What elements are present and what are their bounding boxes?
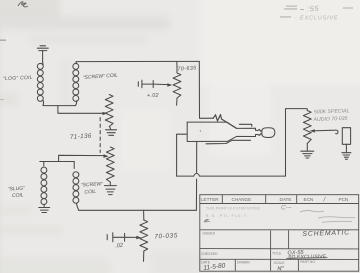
header row [200, 203, 359, 205]
wire: bottom bus [79, 209, 197, 211]
resistor R5 500K audio [303, 111, 311, 144]
plug tip bulb [258, 128, 275, 138]
wire: R5 wiper to hook [312, 130, 339, 134]
svg-text::55: :55 [307, 4, 320, 14]
row5 labels [201, 260, 316, 265]
ground G4 below R2 [104, 182, 116, 195]
left margin marks [0, 40, 6, 41]
gang dashed line 71-136 [99, 118, 101, 153]
arrow into R3 from C1 [167, 83, 172, 87]
arrow into R1 [103, 112, 108, 115]
handwritten labels [3, 65, 198, 249]
ground G6 below J2 [342, 144, 351, 159]
wire: lower horizontal with hop [177, 175, 286, 177]
resistor R2 (lower half of 71-136) [106, 147, 114, 182]
svg-text:ECN: ECN [304, 197, 314, 202]
jack tip contact arm [213, 115, 236, 129]
bottom pickup top wire [40, 161, 74, 163]
wire: stub down to R4 [143, 210, 145, 220]
svg-text:· EXCLUSIVE: · EXCLUSIVE [295, 16, 338, 22]
component J2 rectangle [342, 128, 350, 145]
svg-text:CHECKED: CHECKED [201, 252, 218, 256]
svg-text:THIS PRINT IS FILTER NOTED: THIS PRINT IS FILTER NOTED [206, 207, 261, 211]
svg-text:500K SPECIAL: 500K SPECIAL [314, 108, 350, 115]
pencil squiggles right of row2 [300, 210, 355, 222]
wire: vertical down to jack [199, 61, 213, 118]
arrow into R2 [103, 154, 108, 158]
pencil scribble top-left [18, 2, 28, 7]
wire: jack left lead [177, 134, 187, 176]
title block header text [201, 197, 348, 204]
svg-text:70-035: 70-035 [154, 232, 178, 240]
capacitor C1 +.02 [138, 80, 168, 88]
jack plug J1 body [187, 122, 258, 144]
wire: junction down to pot R1 wiper [58, 106, 104, 114]
svg-text:70-635: 70-635 [177, 65, 197, 72]
wire: top wire from L2 to corner [76, 60, 199, 62]
wire: top pickup bottom bus [43, 105, 76, 107]
wire hop over vertical [194, 173, 200, 176]
resistor R1 (upper half of 71-136) [105, 95, 113, 127]
wire: jack sleeve down to bus [195, 142, 197, 211]
coil L1 "LOG" coil [37, 63, 43, 106]
ground G2 below R1 [106, 127, 117, 136]
svg-text:COIL: COIL [84, 189, 96, 196]
coil L4 "SCREW" coil (bottom) [73, 162, 79, 211]
scribble row2 left [204, 219, 210, 222]
resistor R3 70-635 [173, 67, 181, 106]
wire to R2 wiper from bottom pickup [59, 155, 105, 161]
svg-text:R.N. PTL FLD-T: R.N. PTL FLD-T [206, 214, 246, 218]
svg-text:AUDIO 70-035: AUDIO 70-035 [312, 116, 347, 123]
arrow into R5 wiper [310, 129, 315, 132]
svg-text:SCALE: SCALE [274, 261, 286, 265]
row lines [200, 229, 359, 231]
ground G1 top of log coil [37, 46, 48, 63]
verticals lower [270, 231, 272, 272]
svg-text:ISSUED: ISSUED [203, 232, 216, 236]
title block [200, 195, 359, 272]
svg-text:“SCREW”: “SCREW” [81, 181, 104, 188]
label 500K SPECIAL AUDIO 70-035 (pencil) [312, 108, 349, 123]
ground G3 below slug coil [39, 208, 50, 213]
ground G5 below R5 [301, 144, 314, 159]
svg-text:DATE: DATE [280, 197, 292, 202]
svg-text:COIL: COIL [12, 192, 24, 199]
wire: up right side to R5 [286, 109, 308, 177]
svg-text:TITLE: TITLE [272, 252, 282, 256]
resistor R4 70-035 [140, 220, 148, 261]
svg-text:CHANGE: CHANGE [232, 197, 252, 202]
capacitor C2 .02 [107, 233, 137, 242]
stamp text row2 [206, 207, 261, 219]
arrow into R4 from C2 [136, 236, 141, 240]
svg-text:“LOG” COIL: “LOG” COIL [3, 75, 33, 82]
svg-text:PCN: PCN [339, 197, 349, 202]
svg-text:DRAWN: DRAWN [237, 260, 250, 264]
svg-text:+.02: +.02 [147, 93, 159, 99]
svg-text:PART NO.: PART NO. [300, 260, 316, 264]
pencil note top-right line 2 [280, 16, 338, 22]
coil L2 "SCREW" coil (top) [73, 62, 79, 106]
svg-text:LETTER: LETTER [201, 197, 219, 202]
svg-text:C-~: C-~ [281, 205, 292, 212]
coil L3 "SLUG" coil [41, 162, 47, 208]
pencil note top-right line 1 [284, 4, 353, 14]
